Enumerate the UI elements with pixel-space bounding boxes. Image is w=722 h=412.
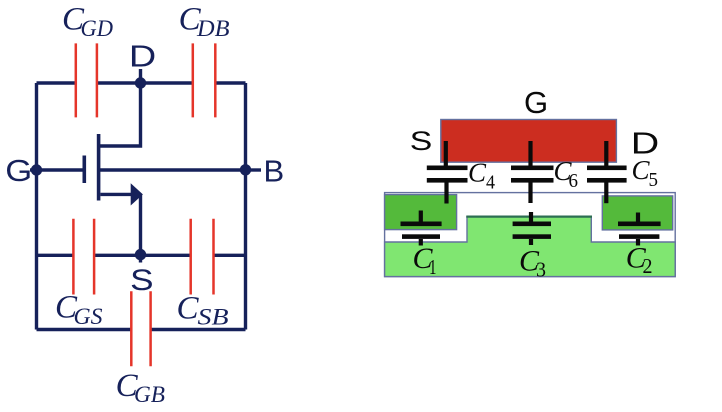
drain diffusion region (dark green) [602, 196, 672, 230]
transistor M1 gate bar [83, 156, 87, 184]
wire: bottom rail segment right [151, 328, 246, 331]
capacitor C3 bottom stem [529, 239, 533, 245]
wire: left rail (G rail) [35, 83, 38, 330]
capacitor C5 plate 2 [587, 178, 627, 183]
node D junction dot [135, 77, 146, 88]
capacitor C1 bottom stem [419, 239, 423, 246]
transistor M1 channel bar [97, 134, 101, 201]
svg-text:6: 6 [569, 171, 579, 192]
capacitor C3 top stem [529, 212, 533, 222]
capacitor CGB plate 1 [130, 291, 133, 366]
substrate outer box [385, 193, 676, 277]
capacitor C4 plate 1 [427, 166, 468, 171]
wire: bottom rail segment left [37, 328, 132, 331]
capacitor C6 plate 2 [511, 178, 554, 183]
capacitor C1 plate 2 [402, 234, 440, 239]
wire: gate lead [37, 168, 85, 171]
capacitor C1 plate 1 [401, 222, 442, 227]
wire: B node stub [246, 168, 262, 171]
capacitor C5 bottom stem [604, 182, 608, 203]
wire: D node stub [139, 69, 142, 83]
capacitor C4 plate 2 [427, 178, 468, 183]
capacitor CGS plate 2 [93, 219, 96, 295]
capacitor C2 top stem [636, 213, 640, 223]
wire: bulk lead to B [99, 168, 246, 171]
node S junction dot [135, 249, 146, 260]
svg-text:DB: DB [196, 16, 230, 41]
wire: S rail segment right [214, 254, 246, 257]
capacitor C2 bottom stem [636, 239, 640, 246]
capacitor CSB plate 1 [189, 219, 192, 295]
svg-text:5: 5 [649, 170, 659, 191]
wire: top rail segment middle [97, 81, 193, 84]
svg-text:D: D [129, 40, 156, 74]
capacitor C6 bottom stem [528, 182, 532, 203]
gate electrode (red) [441, 120, 617, 163]
source diffusion region (dark green) [385, 195, 457, 230]
capacitor C4 top stem [444, 141, 448, 166]
capacitor C5 plate 1 [587, 166, 627, 171]
wire: top rail segment right [215, 81, 245, 84]
svg-text:G: G [5, 153, 32, 188]
svg-text:GD: GD [81, 16, 114, 41]
capacitor CGD plate 2 [96, 43, 99, 117]
wire: S rail segment middle [94, 254, 191, 257]
capacitor C3 plate 2 [513, 234, 551, 239]
substrate bulk with channel mesa (light green) [385, 217, 676, 277]
capacitor C6 top stem [528, 141, 532, 166]
node B junction dot [240, 164, 251, 175]
capacitor C2 plate 1 [618, 222, 661, 227]
svg-text:4: 4 [486, 173, 495, 194]
wire: source vertical to S node [139, 194, 142, 262]
svg-text:S: S [130, 262, 153, 296]
svg-text:S: S [410, 126, 433, 156]
node G junction dot [31, 164, 42, 175]
capacitor CDB plate 1 [192, 43, 195, 117]
svg-text:G: G [524, 85, 548, 120]
capacitor C5 top stem [604, 141, 608, 166]
svg-text:GB: GB [134, 382, 165, 407]
svg-text:C: C [468, 158, 487, 188]
transistor M1 source arrow [131, 183, 143, 205]
svg-text:1: 1 [429, 255, 437, 279]
svg-text:3: 3 [536, 257, 546, 281]
wire: drain connection [99, 83, 141, 146]
capacitor CGD plate 1 [75, 43, 78, 117]
svg-text:SB: SB [198, 305, 229, 330]
wire: S rail segment left [37, 254, 74, 257]
svg-text:GS: GS [74, 304, 103, 329]
wire: top rail segment left [37, 81, 77, 84]
svg-text:B: B [264, 154, 285, 189]
wire: G node stub [30, 168, 37, 171]
svg-text:C: C [177, 291, 200, 327]
capacitor CSB plate 2 [212, 219, 215, 295]
channel mesa top edge [466, 216, 592, 218]
capacitor C4 bottom stem [444, 182, 448, 204]
capacitor C3 plate 1 [513, 222, 551, 227]
wire: source connection [101, 193, 134, 196]
svg-text:2: 2 [643, 254, 653, 278]
capacitor CGS plate 1 [72, 219, 75, 295]
capacitor C1 top stem [419, 211, 423, 223]
wire: right rail (B rail) [244, 83, 247, 330]
capacitor CGB plate 2 [149, 291, 152, 366]
capacitor CDB plate 2 [214, 43, 217, 117]
capacitor C6 plate 1 [511, 166, 554, 171]
capacitor C2 plate 2 [619, 234, 659, 239]
